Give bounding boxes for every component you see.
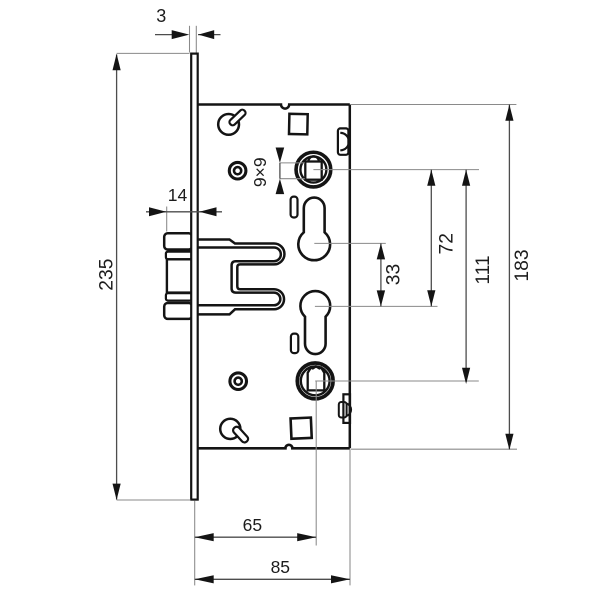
dim 33 arrow bottom (377, 290, 385, 306)
screw hole upper (229, 162, 246, 179)
ext line 3 right (195, 26, 197, 53)
latch fork outer trace (198, 240, 285, 315)
faceplate (191, 54, 198, 500)
dim 111 arrow top (462, 170, 470, 186)
svg-text:9×9: 9×9 (250, 157, 270, 187)
latch bolt waist (167, 259, 192, 292)
dim 65 arrow left (195, 533, 214, 541)
follower lower (spindle hub) (297, 363, 333, 399)
ext line follower-lower centerline (315, 380, 479, 382)
dim 9x9 arrow top (276, 148, 285, 163)
svg-text:85: 85 (271, 557, 290, 577)
right tab lower (339, 394, 351, 423)
dim 3 line left tail (155, 34, 172, 36)
dim 9x9 arrow bottom (276, 179, 285, 194)
dim 111 line (465, 170, 467, 382)
dim 183 line (508, 105, 510, 450)
dim 9x9 line (279, 163, 281, 179)
dim 14 arrow right (199, 207, 216, 216)
ext line keyhole-lower centerline (315, 305, 438, 307)
dim 72 line (430, 170, 432, 307)
euro keyhole lower (circle up, stem down) (300, 291, 330, 354)
latch fork inner trace (198, 248, 281, 306)
slot upper (291, 197, 298, 218)
follower upper (9x9 spindle hub) (296, 152, 331, 187)
dim 65 line (195, 536, 317, 538)
svg-text:14: 14 (168, 185, 188, 205)
ext line body-right bottom (349, 449, 351, 585)
ext line 9x9 top (280, 162, 305, 164)
latch bolt neck band 1 (166, 252, 192, 260)
dim 3 line right tail (198, 34, 221, 36)
lock body top edge with notch (198, 105, 350, 109)
svg-text:111: 111 (473, 255, 494, 284)
dim 85 arrow right (331, 575, 350, 583)
square hole bottom (291, 418, 312, 439)
ext line 14 left (166, 207, 168, 232)
cam bottom-left tab (232, 425, 250, 443)
dim 235 line (116, 55, 118, 500)
latch bolt neck band 2 (166, 293, 192, 300)
ext line faceplate-left bottom (194, 501, 196, 586)
ext line keyhole-upper centerline (314, 242, 386, 244)
screw hole lower (230, 373, 247, 390)
right tab upper (338, 128, 349, 154)
square hole top (289, 114, 308, 135)
slot lower (291, 334, 298, 354)
ext line 235 bottom (117, 499, 191, 501)
lock body bottom edge with notch (198, 445, 350, 448)
euro keyhole upper (stem up, circle down) (298, 198, 330, 261)
dim 72 arrow top (427, 170, 435, 186)
svg-text:72: 72 (436, 233, 457, 254)
dim 183 arrow top (505, 105, 513, 121)
ext line follower-lower vertical (315, 381, 317, 546)
dim 65 arrow right (297, 533, 316, 541)
svg-text:235: 235 (96, 259, 117, 291)
ext line 9x9 bottom (280, 178, 305, 180)
dim 111 arrow bottom (462, 368, 470, 384)
ext line follower-upper centerline (313, 169, 479, 171)
dim 33 arrow top (377, 243, 385, 259)
svg-text:65: 65 (243, 515, 262, 535)
dim 85 line (195, 578, 350, 580)
ext line 235 top (117, 52, 190, 54)
dim 14 line mid (167, 211, 200, 213)
dim 14 line left tail (146, 211, 167, 213)
cam top-left tab (228, 109, 246, 127)
dim 14 arrow left (149, 207, 166, 216)
dim 3 arrow left (172, 30, 190, 39)
dim 3 arrow right (198, 30, 214, 39)
latch bolt bottom flange (164, 303, 192, 319)
svg-text:3: 3 (156, 6, 166, 26)
dim 33 line (380, 243, 382, 306)
dim 235 arrow bottom (113, 484, 121, 500)
cam top-left circle (218, 114, 239, 135)
dim 235 arrow top (113, 54, 121, 70)
dim 72 arrow bottom (427, 290, 435, 306)
dim 183 arrow bottom (505, 434, 513, 450)
cam bottom-left circle (220, 419, 240, 439)
dim 85 arrow left (195, 575, 214, 583)
lock body right edge (349, 105, 352, 449)
latch bolt head top flange (164, 233, 192, 249)
svg-text:33: 33 (383, 264, 404, 285)
ext line 3 left (189, 26, 191, 53)
ext line 183 bottom (351, 448, 517, 450)
dim 14 line right tail (199, 211, 222, 213)
svg-text:183: 183 (512, 249, 533, 281)
ext line 183 top (351, 104, 516, 106)
